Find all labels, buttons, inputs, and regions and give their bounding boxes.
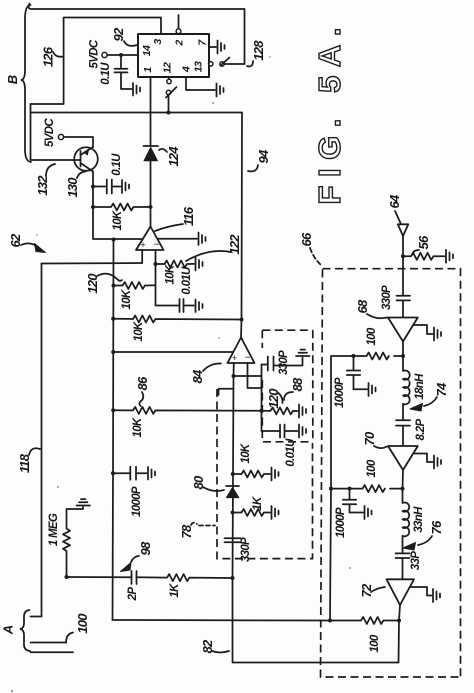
svg-text:130: 130 <box>65 177 80 198</box>
label 84 <box>190 363 221 383</box>
svg-text:8.2P: 8.2P <box>415 419 427 441</box>
resistor 10K feedback to 84 output <box>113 316 241 323</box>
svg-text:33nH: 33nH <box>413 506 425 533</box>
wire - input stub <box>248 363 262 388</box>
label 128 <box>247 40 266 67</box>
node 1000P stage1 <box>352 354 356 358</box>
svg-text:A: A <box>1 625 16 635</box>
label 124 <box>159 146 181 167</box>
resistor 10K input 120 <box>114 282 156 289</box>
capacitor 1000P <box>113 467 147 480</box>
diode D124 <box>144 113 159 227</box>
label 72 <box>359 583 385 597</box>
node bus top <box>112 238 116 242</box>
node 72 output rail <box>397 619 401 623</box>
label 126 <box>41 46 64 67</box>
svg-text:1000P: 1000P <box>131 486 143 517</box>
svg-text:132: 132 <box>35 175 50 196</box>
ground 1000P stage2 <box>365 506 372 519</box>
wire pin 12 to bus <box>168 95 170 113</box>
wire 70 right side to ground <box>413 454 432 463</box>
ground 56 <box>446 250 453 263</box>
brace A <box>21 610 31 651</box>
capacitor 330P of box 88 <box>262 357 303 371</box>
node 1000P stage2 <box>348 487 352 491</box>
label 76 with arrow <box>403 520 444 550</box>
ground 68 <box>434 328 441 341</box>
node bus stage2 <box>329 487 333 491</box>
node 1000P tap <box>111 471 115 475</box>
label 82 <box>200 639 229 653</box>
svg-text:+: + <box>232 353 237 363</box>
svg-text:10K: 10K <box>132 417 144 437</box>
wire input A lead 2 <box>31 642 67 644</box>
pin 1 stub to bus <box>150 77 152 113</box>
IC top stub with open terminal <box>178 15 180 29</box>
svg-text:1 MEG: 1 MEG <box>48 513 60 546</box>
resistor 100 stage2 <box>331 485 403 492</box>
ground 1K box78 <box>272 506 279 519</box>
svg-text:+: + <box>140 240 145 250</box>
svg-text:7: 7 <box>197 39 209 46</box>
svg-text:33P: 33P <box>410 551 422 570</box>
capacitor 2P <box>132 571 137 584</box>
wire riser x=261.5 <box>261 365 263 432</box>
svg-text:10K: 10K <box>133 321 145 341</box>
node 56 <box>401 254 405 258</box>
IC U92 box <box>138 34 209 77</box>
label 92 <box>111 27 137 46</box>
svg-text:10K: 10K <box>165 264 177 284</box>
node 86 tap <box>111 408 115 412</box>
svg-text:330P: 330P <box>278 350 290 375</box>
transistor Q130 <box>74 147 98 172</box>
svg-text:64: 64 <box>387 194 402 208</box>
op-amp U70 <box>388 446 418 470</box>
node wire to 84 left side <box>111 350 115 354</box>
capacitor 0.01U <box>180 299 195 312</box>
wire +input rail y=263 from left bus <box>42 262 143 265</box>
ground 116 <box>199 233 206 246</box>
resistor 100 stage1 <box>331 353 403 489</box>
ground 1000P stage1 <box>369 383 376 396</box>
node feedback tap <box>111 317 115 321</box>
dashed box 78 <box>217 389 313 559</box>
node 84 output feedback <box>240 318 244 322</box>
ground pin 4 <box>217 84 224 97</box>
svg-text:94: 94 <box>256 149 271 163</box>
node on 5VDC wire <box>119 53 123 57</box>
label 86 <box>135 376 150 406</box>
capacitor 0.1U bypass <box>115 55 132 89</box>
svg-text:98: 98 <box>138 541 153 555</box>
svg-text:70: 70 <box>362 431 377 445</box>
svg-text:74: 74 <box>434 382 449 396</box>
wire corner into box 78 <box>219 389 234 395</box>
label 56 <box>412 235 431 255</box>
resistor 1 MEG <box>63 507 83 577</box>
label 94 <box>248 149 271 171</box>
svg-text:124: 124 <box>166 146 181 167</box>
svg-text:0.1U: 0.1U <box>100 62 112 85</box>
svg-text:100: 100 <box>366 459 378 477</box>
wire to op-amp 84 left side <box>113 351 233 353</box>
svg-text:−: − <box>154 240 160 251</box>
svg-text:10K: 10K <box>112 210 124 230</box>
svg-text:3: 3 <box>152 39 164 45</box>
wire 72 output down to bottom rail <box>399 605 401 663</box>
switch lever pin 13 <box>221 58 230 66</box>
wire pin 7 to ground <box>209 46 216 48</box>
svg-text:76: 76 <box>429 520 444 534</box>
svg-text:FIG. 5A.: FIG. 5A. <box>312 28 347 205</box>
wire bus bottom corner to y=620 rail <box>113 619 331 622</box>
wire bus down to y620 <box>330 489 331 621</box>
ground for 0.1U collector <box>122 180 129 193</box>
op-amp U72 <box>387 579 415 605</box>
op-amp U68 <box>388 318 418 342</box>
ground 0.01U <box>196 300 203 313</box>
capacitor 8.2P <box>396 420 410 446</box>
svg-text:2: 2 <box>174 40 186 47</box>
switch on pin 12 <box>168 77 170 79</box>
brace B <box>22 5 32 162</box>
capacitor 33P <box>396 553 410 579</box>
wire pin 4 stub <box>186 77 215 90</box>
svg-text:1000P: 1000P <box>335 507 347 538</box>
svg-text:126: 126 <box>41 46 56 67</box>
node 120 resistor tap <box>260 409 264 413</box>
wire input into box <box>402 256 404 296</box>
wire input A lead 1 <box>31 616 42 618</box>
svg-text:68: 68 <box>355 299 370 313</box>
ground 70 <box>434 456 441 469</box>
wire top bus y=9 with curled left end <box>29 4 245 65</box>
svg-text:4: 4 <box>181 66 193 73</box>
dashed box 88 <box>262 330 313 442</box>
label 122 <box>186 234 242 261</box>
label 62 with arrow <box>8 233 46 252</box>
ground 120 <box>299 405 306 418</box>
ground pin 7 <box>218 41 225 54</box>
svg-text:88: 88 <box>290 377 305 391</box>
scan speckles <box>11 56 410 692</box>
svg-text:72: 72 <box>359 583 374 597</box>
switch on pin 13 <box>209 62 213 66</box>
node pin12/bus <box>167 111 171 115</box>
svg-text:2P: 2P <box>127 587 139 602</box>
ground 330P up <box>296 350 310 356</box>
node 10K tap box78 <box>231 472 235 476</box>
ground 0.01U box88 <box>299 425 306 438</box>
wire pin13 switch to right riser <box>209 63 245 65</box>
switch lever pin 12 <box>166 87 177 98</box>
resistor 86 10K <box>113 407 261 414</box>
inductor 33nH <box>403 489 410 554</box>
op-amp U84 <box>228 338 255 364</box>
svg-text:100: 100 <box>369 634 381 652</box>
resistor 100 bottom <box>330 617 399 624</box>
svg-text:1K: 1K <box>252 496 264 511</box>
resistor 10K to diode line <box>93 204 151 211</box>
label 120 <box>266 388 283 409</box>
dashed box 66 <box>321 269 461 677</box>
svg-text:5VDC: 5VDC <box>44 118 56 147</box>
wire + input stub down <box>233 363 234 578</box>
input terminal triangle 64 <box>398 224 409 236</box>
wire vertical bus x=113 <box>113 240 114 621</box>
wire 126 loop from IC pin area <box>31 18 162 105</box>
wire input A lead 3 <box>31 651 74 653</box>
node y620 bus join <box>328 619 332 623</box>
node 120 tap <box>112 284 116 288</box>
wire base from left riser <box>31 159 81 161</box>
ground for 0.1U <box>133 83 140 96</box>
svg-text:5VDC: 5VDC <box>89 39 101 68</box>
wire 72 right side to ground <box>410 587 432 596</box>
node 68 output <box>401 354 405 358</box>
node diode line / 10K <box>149 205 153 209</box>
capacitor 1000P stage2 <box>343 489 363 513</box>
wire 68 right side to ground <box>413 325 432 334</box>
resistor 120 in box 88 <box>262 407 298 414</box>
capacitor 1000P stage1 <box>347 356 367 389</box>
svg-text:1000P: 1000P <box>334 377 346 408</box>
svg-text:0.01U: 0.01U <box>181 266 193 295</box>
node feedback junction <box>231 576 235 580</box>
svg-text:66: 66 <box>299 232 314 246</box>
resistor 10K feedback 122 <box>156 261 195 268</box>
diode D80 <box>226 486 239 498</box>
wire x=232 down to bottom rail <box>233 578 399 663</box>
svg-text:86: 86 <box>135 376 150 390</box>
label 100 lead2 <box>66 613 90 643</box>
resistor 56 <box>403 253 445 260</box>
svg-text:330P: 330P <box>381 285 393 310</box>
wire - input stub <box>155 250 157 264</box>
ground 1 MEG up <box>77 499 91 505</box>
wire bus y=112.5 <box>31 112 243 114</box>
ground 1000P <box>148 467 155 480</box>
label 116 <box>155 206 196 231</box>
svg-text:−: − <box>245 353 251 364</box>
label 98 with arrow <box>121 541 154 571</box>
svg-text:10K: 10K <box>121 289 133 309</box>
svg-text:100: 100 <box>366 327 378 345</box>
wire 0.01U tap <box>262 430 281 432</box>
capacitor 330P stage1 <box>397 296 411 317</box>
label 80 <box>191 475 224 491</box>
node - input <box>154 262 158 266</box>
svg-text:92: 92 <box>111 27 126 41</box>
ground 122 resistor <box>196 258 203 271</box>
svg-text:330P: 330P <box>240 537 252 562</box>
label 132 <box>35 164 55 196</box>
wire 68 output <box>402 342 404 357</box>
op-amp U116 <box>136 227 164 251</box>
wire 5VDC to transistor emitter <box>64 137 93 147</box>
wire collector rail to op-amp 116 left side <box>114 238 143 240</box>
node 1MEG / 2P rail <box>65 575 69 579</box>
capacitor 0.01U box88 <box>280 425 298 438</box>
svg-text:78: 78 <box>179 524 194 538</box>
wire left bus 118 <box>41 264 43 617</box>
label 64 with input triangle <box>387 194 402 223</box>
node collector cap tap <box>91 185 95 189</box>
node 70 output <box>401 487 405 491</box>
ground 10K box78 <box>272 468 279 481</box>
wire right riser x=242 from bus y112 <box>241 113 242 338</box>
svg-text:0.1U: 0.1U <box>111 153 123 176</box>
svg-text:56: 56 <box>416 235 431 249</box>
label 66 <box>299 232 322 266</box>
svg-text:14: 14 <box>141 45 153 56</box>
label 68 <box>355 299 387 318</box>
svg-text:12: 12 <box>162 62 174 73</box>
label 118 <box>17 448 40 473</box>
capacitor 330P box78 <box>225 538 241 542</box>
node 1K tap box78 <box>231 511 235 515</box>
wire collector down <box>93 172 114 240</box>
label 88 <box>284 377 305 400</box>
svg-text:120: 120 <box>266 388 281 409</box>
resistor 1K box78 <box>233 509 270 516</box>
label 78 <box>179 523 215 539</box>
label 74 with arrow <box>410 382 449 411</box>
wire + input stub <box>141 250 143 263</box>
wire 70 output <box>402 470 405 489</box>
wire 5VDC to IC <box>107 54 138 56</box>
node collector 10K tap <box>91 205 95 209</box>
svg-text:13: 13 <box>193 61 205 72</box>
wire left riser x=30.5 <box>30 104 32 160</box>
wire input to node 56 <box>402 236 404 256</box>
wire - input to 0.01U <box>156 264 180 306</box>
svg-text:118: 118 <box>17 453 32 473</box>
label 120 <box>85 273 122 294</box>
wire 2P / 1K node rail <box>66 574 233 581</box>
svg-text:10K: 10K <box>240 443 252 463</box>
node + input <box>232 374 236 378</box>
label 70 <box>362 431 387 448</box>
wire +input to riser 261 <box>234 375 262 377</box>
inductor 18nH <box>403 356 410 420</box>
svg-text:128: 128 <box>251 40 266 61</box>
ground 72 <box>433 589 440 602</box>
wire 116 right side to ground <box>158 238 198 240</box>
svg-text:100: 100 <box>75 613 90 634</box>
svg-text:1: 1 <box>142 67 154 73</box>
resistor 10K box78 <box>233 471 270 478</box>
svg-text:18nH: 18nH <box>414 373 426 400</box>
capacitor 0.1U collector <box>93 180 121 194</box>
svg-text:1K: 1K <box>169 583 181 598</box>
label 130 <box>65 172 86 198</box>
svg-text:B: B <box>5 75 20 84</box>
